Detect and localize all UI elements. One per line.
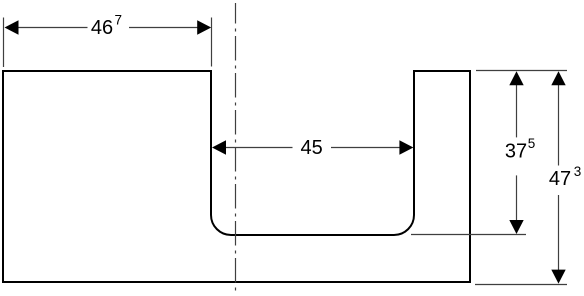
svg-text:47: 47 [549, 168, 571, 190]
svg-text:7: 7 [115, 12, 123, 27]
svg-text:3: 3 [574, 164, 582, 179]
svg-text:5: 5 [528, 136, 536, 151]
svg-text:45: 45 [300, 137, 322, 159]
svg-text:37: 37 [505, 141, 527, 163]
svg-text:46: 46 [91, 17, 113, 39]
